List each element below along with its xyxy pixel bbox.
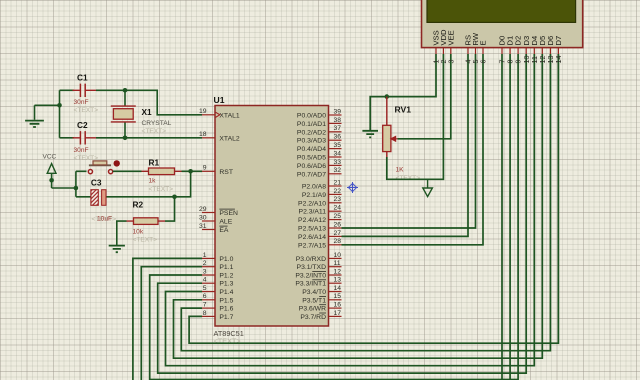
pin 1 VSS (LCD) [432, 30, 441, 63]
svg-text:16: 16 [334, 302, 342, 309]
pin 36 P0.3/AD3 [297, 134, 342, 145]
potentiometer RV1 [383, 97, 421, 182]
svg-text:6: 6 [203, 293, 207, 300]
pin 10 D3 (LCD) [522, 36, 531, 64]
svg-text:X1: X1 [142, 107, 153, 117]
pin 33 P0.6/AD6 [297, 159, 342, 170]
svg-text:P1.5: P1.5 [219, 297, 233, 304]
node junction C1 / X1 top [123, 88, 128, 93]
svg-text:31: 31 [199, 223, 207, 230]
node junction at ground tap [57, 103, 62, 108]
pin 7 P1.6 [202, 302, 234, 313]
pin 2 P1.1 [202, 260, 234, 271]
pin 28 P2.7/A15 [298, 238, 341, 249]
svg-text:<TEXT>: <TEXT> [74, 107, 99, 114]
svg-text:P3.5/T1: P3.5/T1 [302, 297, 326, 304]
wire P2.6 to LCD RS [342, 54, 469, 236]
svg-text:37: 37 [334, 125, 342, 132]
svg-text:3: 3 [203, 268, 207, 275]
pin 6 P1.5 [202, 293, 234, 304]
wire P1.1 to LCD D1 [141, 267, 202, 380]
svg-text:VEE: VEE [446, 30, 455, 45]
capacitor C1 [73, 73, 99, 115]
node origin marker (blue diamond) [347, 182, 358, 193]
svg-text:<TEXT>: <TEXT> [149, 186, 174, 193]
svg-text:P3.3/INT1: P3.3/INT1 [295, 281, 326, 288]
svg-text:R1: R1 [149, 158, 160, 168]
svg-text:P1.2: P1.2 [219, 273, 233, 280]
svg-text:34: 34 [334, 150, 342, 157]
op chip U1 AT89C51 body [214, 95, 329, 326]
svg-text:1K: 1K [396, 167, 405, 174]
svg-text:P3.0/RXD: P3.0/RXD [296, 256, 326, 263]
svg-text:P0.3/AD3: P0.3/AD3 [297, 138, 326, 145]
pin 3 P1.2 [202, 268, 234, 279]
pin 6 E (LCD) [479, 40, 488, 63]
pin 8 P1.7 [202, 310, 234, 321]
svg-text:P3.7/RD: P3.7/RD [300, 314, 326, 321]
svg-text:5: 5 [203, 285, 207, 292]
wire LCD D0 vertical [501, 54, 503, 380]
svg-text:30nF: 30nF [74, 99, 89, 106]
svg-text:P2.7/A15: P2.7/A15 [298, 242, 326, 249]
svg-text:C1: C1 [77, 73, 88, 83]
svg-text:P3.6/WR: P3.6/WR [299, 306, 326, 313]
svg-text:D7: D7 [554, 36, 563, 46]
svg-text:P3.1/TXD: P3.1/TXD [297, 264, 327, 271]
svg-text:12: 12 [334, 268, 342, 275]
svg-text:P2.0/A8: P2.0/A8 [302, 184, 326, 191]
svg-text:10: 10 [334, 252, 342, 259]
svg-text:C3: C3 [91, 178, 102, 188]
svg-text:32: 32 [334, 167, 342, 174]
wire button to R1 [113, 170, 142, 172]
wire R2 to ground [117, 221, 127, 245]
pin 14 P3.4/T0 [302, 285, 341, 296]
wire P1.7 to LCD D7 [189, 54, 558, 343]
wire P1.6 to LCD D6 [181, 54, 550, 351]
pin 21 P2.0/A8 [302, 179, 342, 190]
wire R2 right branch [165, 197, 175, 221]
svg-text:C2: C2 [77, 120, 88, 130]
svg-text:2: 2 [203, 260, 207, 267]
svg-text:38: 38 [334, 117, 342, 124]
svg-text:9: 9 [203, 165, 207, 172]
svg-text:P2.3/A11: P2.3/A11 [299, 209, 327, 216]
pin 18 XTAL2 [199, 131, 240, 142]
svg-text:E: E [479, 40, 488, 45]
svg-text:P1.0: P1.0 [219, 256, 233, 263]
pin 19 XTAL1 [199, 108, 240, 119]
pin 22 P2.1/A9 [302, 188, 342, 199]
wire P1.3 to LCD D3 [158, 54, 527, 373]
pin 5 P1.4 [202, 285, 234, 296]
svg-text:35: 35 [334, 142, 342, 149]
svg-text:<TEXT>: <TEXT> [133, 237, 158, 244]
pin 34 P0.5/AD5 [297, 150, 342, 161]
pin 8 D1 (LCD) [506, 36, 515, 64]
power VCC terminal [47, 164, 56, 188]
svg-text:14: 14 [334, 285, 342, 292]
pin 24 P2.3/A11 [299, 205, 342, 216]
pin 30 ALE [199, 214, 233, 225]
pin 11 P3.1/TXD [297, 260, 342, 271]
svg-text:P2.4/A12: P2.4/A12 [298, 217, 326, 224]
pin 10 P3.0/RXD [296, 252, 342, 263]
svg-text:25: 25 [334, 213, 342, 220]
svg-text:27: 27 [334, 230, 342, 237]
svg-text:P1.7: P1.7 [219, 314, 233, 321]
node junction VCC branch [74, 186, 79, 191]
wire C2 left lead [60, 137, 75, 139]
pin 15 P3.5/T1 [302, 293, 341, 304]
svg-text:P0.5/AD5: P0.5/AD5 [297, 155, 326, 162]
resistor R2 [127, 200, 166, 244]
svg-text:1: 1 [203, 252, 207, 259]
pin 32 P0.7/AD7 [297, 167, 342, 178]
svg-text:U1: U1 [214, 95, 225, 105]
ground terminal (arrow) [423, 179, 433, 196]
wire C1 left lead [60, 89, 75, 91]
pin 4 RS (LCD) [464, 35, 473, 64]
svg-text:P1.4: P1.4 [219, 289, 233, 296]
wire P1.5 to LCD D5 [174, 54, 543, 358]
wire C1-C2 left vertical [59, 90, 61, 138]
svg-text:28: 28 [334, 238, 342, 245]
svg-text:R2: R2 [133, 200, 144, 210]
svg-text:XTAL2: XTAL2 [219, 135, 239, 142]
svg-text:13: 13 [334, 277, 342, 284]
svg-text:CRYSTAL: CRYSTAL [142, 120, 172, 127]
pin 5 RW (LCD) [471, 32, 480, 63]
svg-text:P0.7/AD7: P0.7/AD7 [297, 171, 326, 178]
svg-text:29: 29 [199, 206, 207, 213]
capacitor C2 [73, 120, 99, 162]
pin 7 D0 (LCD) [498, 36, 507, 64]
svg-text:P3.4/T0: P3.4/T0 [302, 289, 326, 296]
svg-text:30nF: 30nF [74, 147, 89, 154]
svg-text:14: 14 [554, 56, 563, 64]
svg-text:22: 22 [334, 188, 342, 195]
svg-text:1k: 1k [149, 178, 157, 185]
svg-text:30: 30 [199, 214, 207, 221]
pin 13 P3.3/INT1 [295, 277, 341, 288]
pin 31 EA [199, 223, 229, 234]
svg-text:<TEXT>: <TEXT> [142, 128, 167, 135]
node on VCC stem [49, 178, 54, 183]
wire LCD D1 vertical [509, 54, 511, 380]
wire C2 right to XTAL2 [96, 137, 202, 139]
svg-text:VCC: VCC [43, 154, 57, 161]
ground (R2) [109, 246, 125, 253]
node junction R2 tap [172, 195, 177, 200]
pin 12 D5 (LCD) [538, 36, 547, 64]
pin 25 P2.4/A12 [298, 213, 341, 224]
pin 11 D4 (LCD) [530, 36, 539, 64]
pin 4 P1.3 [202, 277, 234, 288]
pin 14 D7 (LCD) [554, 36, 563, 64]
pin 17 P3.7/RD [300, 310, 341, 321]
wire R1 to RST pin [182, 170, 203, 172]
svg-text:15: 15 [334, 293, 342, 300]
wire P2.7 to LCD E [342, 54, 484, 245]
wire RST node down to C3 net [106, 171, 191, 197]
pin 37 P0.2/AD2 [297, 125, 342, 136]
pin 1 P1.0 [202, 252, 234, 263]
svg-text:17: 17 [334, 310, 342, 317]
svg-text:26: 26 [334, 221, 342, 228]
svg-text:ALE: ALE [219, 219, 232, 226]
pin 16 P3.6/WR [299, 302, 342, 313]
wire P1.2 to LCD D2 [150, 54, 518, 380]
wire P2.5 to LCD RW [342, 54, 476, 228]
node junction RV1 top [385, 94, 390, 99]
svg-text:10uF: 10uF [97, 216, 112, 223]
svg-text:RV1: RV1 [395, 105, 412, 115]
svg-text:4: 4 [203, 277, 207, 284]
wire P1.4 to LCD D4 [166, 54, 535, 366]
pin 12 P3.2/INT0 [295, 268, 341, 279]
svg-text:21: 21 [334, 179, 342, 186]
svg-text:P0.4/AD4: P0.4/AD4 [297, 146, 326, 153]
wire crystal vertical [124, 90, 126, 138]
svg-text:36: 36 [334, 134, 342, 141]
svg-text:8: 8 [203, 310, 207, 317]
svg-text:10k: 10k [133, 229, 144, 236]
svg-text:RST: RST [219, 169, 233, 176]
pin 27 P2.6/A14 [298, 230, 341, 241]
node junction C2 / X1 bottom [123, 136, 128, 141]
pin 38 P0.1/AD1 [297, 117, 342, 128]
pin 2 VDD (LCD) [439, 29, 448, 64]
svg-text:P2.2/A10: P2.2/A10 [298, 200, 326, 207]
svg-text:3: 3 [446, 60, 455, 64]
wire LCD VSS(1) to ground rail [370, 54, 436, 130]
crystal X1 [111, 106, 172, 135]
svg-text:24: 24 [334, 205, 342, 212]
svg-text:P1.1: P1.1 [219, 264, 233, 271]
LCD screen [427, 0, 576, 22]
pin 29 PSEN [199, 206, 238, 217]
node junction RST [188, 169, 193, 174]
pin 9 D2 (LCD) [514, 36, 523, 64]
resistor R1 [142, 158, 182, 194]
wire P1.0 to LCD D0 [133, 258, 202, 380]
svg-text:6: 6 [479, 60, 488, 64]
svg-text:P0.1/AD1: P0.1/AD1 [297, 121, 326, 128]
pin 23 P2.2/A10 [298, 196, 341, 207]
pin 35 P0.4/AD4 [297, 142, 342, 153]
svg-text:P3.2/INT0: P3.2/INT0 [295, 273, 326, 280]
svg-text:39: 39 [334, 108, 342, 115]
push button (reset switch) [88, 160, 120, 174]
wire RV1 bottom to LCD VDD(2) [387, 54, 444, 179]
svg-text:P0.6/AD6: P0.6/AD6 [297, 163, 326, 170]
pin 39 P0.0/AD0 [297, 108, 342, 119]
svg-text:P2.5/A13: P2.5/A13 [298, 226, 326, 233]
pin 9 RST [202, 165, 233, 176]
svg-text:19: 19 [199, 108, 207, 115]
svg-text:P2.6/A14: P2.6/A14 [298, 234, 326, 241]
svg-text:XTAL1: XTAL1 [219, 112, 239, 119]
wire C1 right to crystal node [96, 90, 202, 115]
pin 13 D6 (LCD) [546, 36, 555, 64]
svg-text:11: 11 [334, 260, 341, 267]
wire VCC to reset net [52, 171, 91, 197]
svg-text:18: 18 [199, 131, 207, 138]
svg-text:PSEN: PSEN [219, 210, 238, 217]
svg-text:<TEXT>: <TEXT> [214, 337, 241, 346]
svg-text:P1.6: P1.6 [219, 306, 233, 313]
svg-text:P1.3: P1.3 [219, 281, 233, 288]
LCD display body [422, 0, 583, 48]
svg-text:P2.1/A9: P2.1/A9 [302, 192, 326, 199]
svg-text:P0.0/AD0: P0.0/AD0 [297, 113, 326, 120]
svg-text:23: 23 [334, 196, 342, 203]
svg-text:33: 33 [334, 159, 342, 166]
wire ground to C1/C2 net [35, 104, 60, 106]
ground (RV1 rail) [362, 131, 378, 138]
pin 26 P2.5/A13 [298, 221, 341, 232]
svg-text:P0.2/AD2: P0.2/AD2 [297, 129, 326, 136]
pin 3 VEE (LCD) [446, 30, 455, 63]
ground (crystal section) [25, 105, 44, 127]
svg-text:7: 7 [203, 302, 207, 309]
wire RV1 wiper to LCD VEE(3) [398, 54, 451, 139]
svg-text:EA: EA [219, 227, 229, 234]
